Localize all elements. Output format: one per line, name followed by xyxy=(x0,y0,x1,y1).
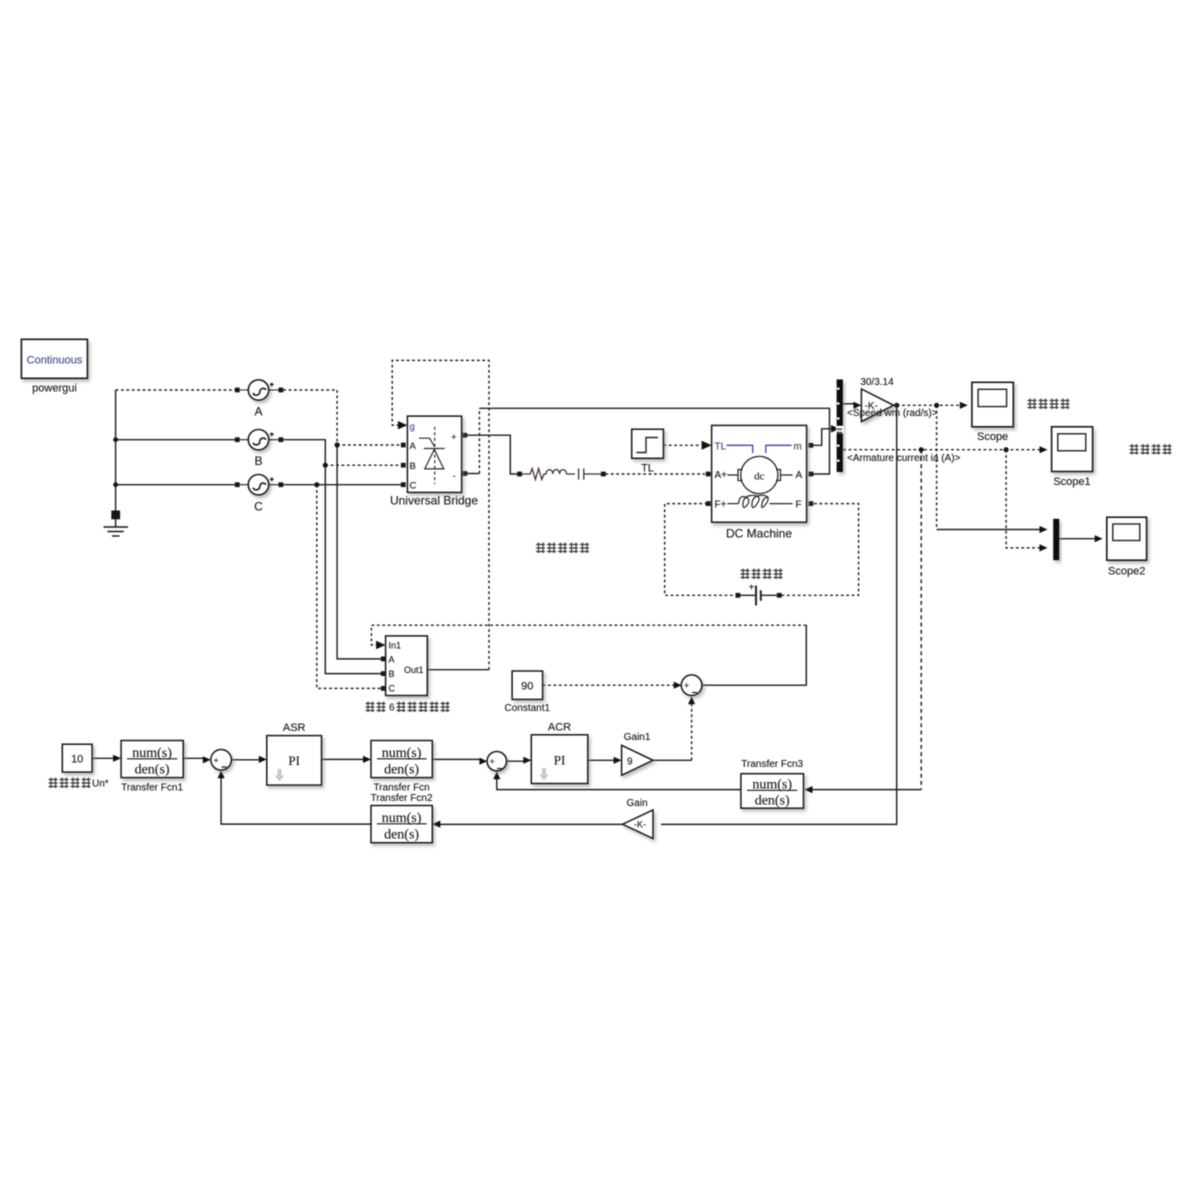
svg-text:+: + xyxy=(490,757,495,767)
svg-text:TL: TL xyxy=(715,441,727,452)
svg-text:F: F xyxy=(796,499,802,510)
svg-text:<Speed wm (rad/s)>: <Speed wm (rad/s)> xyxy=(847,408,938,419)
svg-text:Gain1: Gain1 xyxy=(624,732,651,743)
svg-text:Scope: Scope xyxy=(977,431,1008,443)
svg-text:90: 90 xyxy=(521,681,533,693)
svg-text:ACR: ACR xyxy=(548,722,571,734)
svg-text:30/3.14: 30/3.14 xyxy=(860,377,894,388)
svg-text:PI: PI xyxy=(288,753,300,768)
svg-text:-K-: -K- xyxy=(634,820,646,830)
svg-text:A: A xyxy=(254,405,262,419)
svg-text:Transfer Fcn2: Transfer Fcn2 xyxy=(371,793,433,804)
svg-text:Continuous: Continuous xyxy=(27,355,83,367)
svg-text:g: g xyxy=(410,422,415,433)
svg-text:m: m xyxy=(794,441,802,452)
svg-text:Gain: Gain xyxy=(627,798,648,809)
svg-text:C: C xyxy=(254,500,263,514)
svg-text:<Armature current ia (A)>: <Armature current ia (A)> xyxy=(847,453,961,464)
svg-text:C: C xyxy=(410,481,417,492)
svg-text:9: 9 xyxy=(627,756,633,767)
svg-text:+: + xyxy=(451,432,457,443)
svg-text:DC Machine: DC Machine xyxy=(726,527,792,541)
svg-text:B: B xyxy=(410,461,416,472)
svg-text:den(s): den(s) xyxy=(135,763,170,778)
svg-text:B: B xyxy=(254,454,262,468)
svg-text:B: B xyxy=(389,669,395,679)
svg-text:Transfer Fcn1: Transfer Fcn1 xyxy=(121,783,183,794)
svg-text:+: + xyxy=(749,583,755,594)
svg-text:A: A xyxy=(389,654,395,664)
svg-text:powergui: powergui xyxy=(32,383,77,395)
svg-text:+: + xyxy=(684,681,689,691)
svg-text:dc: dc xyxy=(754,471,765,483)
svg-text:Scope2: Scope2 xyxy=(1108,566,1145,578)
svg-text:A: A xyxy=(796,470,803,481)
svg-text:A: A xyxy=(410,441,417,452)
svg-text:den(s): den(s) xyxy=(384,828,419,843)
svg-text:Constant1: Constant1 xyxy=(505,703,551,714)
svg-text:PI: PI xyxy=(554,753,566,768)
svg-text:den(s): den(s) xyxy=(384,763,419,778)
svg-text:Universal Bridge: Universal Bridge xyxy=(390,494,478,508)
svg-text:Transfer Fcn: Transfer Fcn xyxy=(373,783,429,794)
svg-text:In1: In1 xyxy=(389,640,402,650)
svg-text:A+: A+ xyxy=(715,470,728,481)
svg-text:F+: F+ xyxy=(715,499,727,510)
svg-text:-: - xyxy=(453,471,456,482)
svg-text:10: 10 xyxy=(71,754,83,766)
svg-text:Un*: Un* xyxy=(92,779,109,790)
svg-text:6: 6 xyxy=(389,703,395,714)
svg-text:+: + xyxy=(214,755,219,765)
svg-text:Transfer Fcn3: Transfer Fcn3 xyxy=(741,759,803,770)
svg-text:den(s): den(s) xyxy=(755,794,790,809)
svg-text:TL: TL xyxy=(641,463,654,475)
svg-text:Scope1: Scope1 xyxy=(1053,476,1090,488)
svg-text:C: C xyxy=(389,684,396,694)
svg-text:Out1: Out1 xyxy=(404,665,424,675)
svg-text:ASR: ASR xyxy=(283,722,306,734)
